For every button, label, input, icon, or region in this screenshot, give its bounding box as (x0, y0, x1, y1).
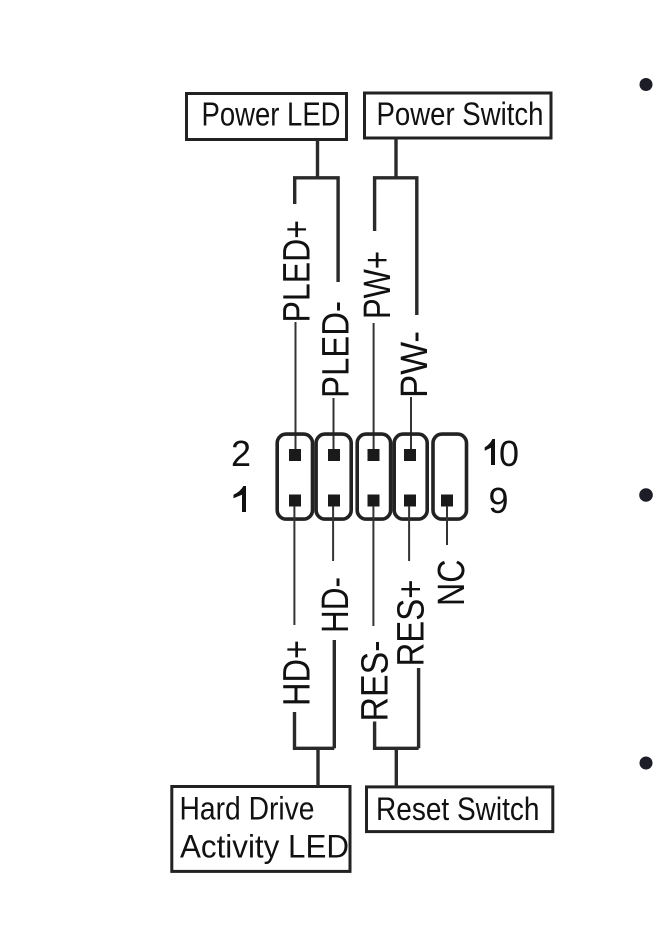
svg-text:HD+: HD+ (277, 640, 319, 706)
box Power Switch (365, 93, 552, 138)
pin number 10 (485, 439, 495, 465)
pin 1 square (289, 495, 301, 507)
box Hard Drive Activity LED (172, 787, 350, 872)
pin 3 square (328, 495, 340, 507)
svg-text:PW-: PW- (394, 331, 436, 398)
svg-text:HD-: HD- (315, 577, 357, 633)
wire PLED- to pin (333, 398, 335, 451)
pin 4 square (328, 449, 340, 461)
bullet (right margin, middle) (639, 488, 653, 502)
wire RES- from pin 5 (372, 506, 374, 626)
pin 7 square (404, 495, 416, 507)
wire HD- from pin 3 (332, 506, 334, 561)
wire stub from Power LED box (316, 140, 319, 178)
pin 6 square (368, 449, 380, 461)
pin 9 square (441, 495, 453, 507)
wire stub to Hard Drive box (316, 748, 319, 786)
svg-text:2: 2 (231, 433, 251, 474)
bracket Power LED (295, 178, 338, 282)
wire PW- to pin (410, 397, 412, 451)
svg-text:0: 0 (499, 433, 519, 474)
wire PW+ to pin (373, 323, 375, 451)
leg RES+ down (417, 668, 420, 748)
header pin column 5 (433, 434, 467, 519)
bullet (right margin, top) (640, 78, 653, 91)
svg-text:Activity LED: Activity LED (180, 829, 349, 865)
wire PLED+ to pin 2 (295, 322, 297, 451)
pin 2 square (289, 449, 301, 461)
wire RES+ from pin 7 (408, 506, 410, 561)
header pin column 3 (357, 434, 390, 519)
pin 5 square (368, 495, 380, 507)
svg-text:9: 9 (488, 480, 508, 521)
header pin column 2 (316, 434, 351, 519)
wire HD+ from pin 1 (293, 506, 295, 625)
svg-text:PW+: PW+ (357, 251, 399, 319)
pin number 1 (234, 486, 247, 512)
header pin column 1 (277, 434, 312, 519)
wire stub from Power Switch box (394, 138, 397, 178)
wire stub to Reset box (395, 748, 398, 787)
bracket Power Switch (375, 178, 417, 315)
bracket Hard Drive Activity LED (295, 712, 335, 748)
svg-text:PLED-: PLED- (315, 301, 357, 398)
svg-text:Power LED: Power LED (202, 95, 341, 132)
bullet (right margin, bottom) (640, 757, 653, 770)
leg HD- down (333, 640, 336, 748)
bracket Reset Switch (375, 722, 419, 749)
svg-text:NC: NC (431, 560, 473, 607)
svg-text:PLED+: PLED+ (276, 220, 318, 323)
box Reset Switch (367, 787, 553, 832)
wire NC from pin 9 (446, 506, 448, 545)
svg-text:RES+: RES+ (391, 580, 433, 667)
header pin column 4 (394, 434, 427, 519)
pin 8 square (404, 449, 416, 461)
svg-text:Reset Switch: Reset Switch (376, 791, 540, 827)
svg-text:Power Switch: Power Switch (377, 96, 544, 132)
svg-text:Hard Drive: Hard Drive (180, 790, 315, 826)
box Power LED (187, 94, 347, 140)
